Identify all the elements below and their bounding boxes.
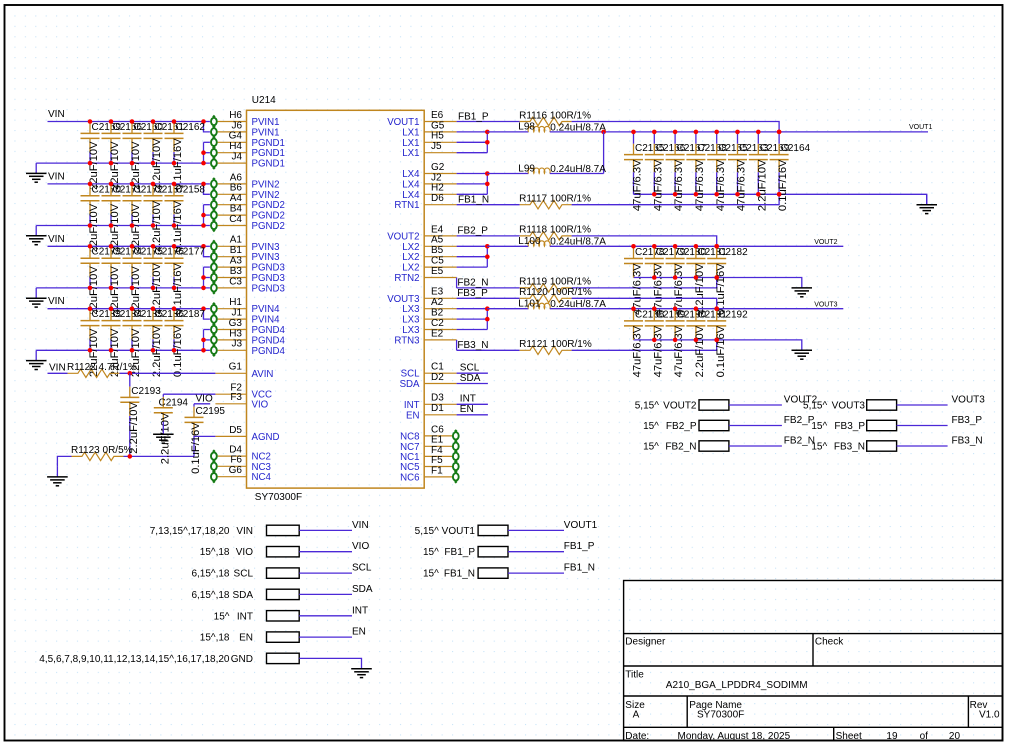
svg-text:LX2: LX2: [402, 242, 419, 253]
svg-text:FB2_P: FB2_P: [666, 421, 697, 432]
svg-text:D3: D3: [431, 393, 444, 404]
wire bank3 ground rail: [634, 339, 802, 341]
resistor R1121 100R/1%: [519, 339, 592, 354]
svg-text:SY70300F: SY70300F: [697, 710, 744, 721]
svg-text:LX3: LX3: [402, 315, 419, 326]
node junction dots: [88, 182, 93, 228]
pin J2 LX4: [402, 172, 456, 190]
svg-text:4,5,6,7,8,9,10,11,12,13,14,15^: 4,5,6,7,8,9,10,11,12,13,14,15^,16,17,18,…: [39, 654, 230, 665]
wire SCL: [299, 563, 372, 574]
svg-text:LX1: LX1: [402, 138, 419, 149]
node LX1 junction: [457, 130, 490, 153]
svg-text:B5: B5: [431, 245, 444, 256]
svg-text:FB2_N: FB2_N: [784, 436, 815, 447]
svg-text:EN: EN: [460, 404, 474, 415]
svg-text:FB1_P: FB1_P: [458, 111, 489, 122]
capacitor C2167: [666, 132, 707, 211]
svg-text:AVIN: AVIN: [252, 369, 274, 380]
wire RTN2 drop: [456, 278, 458, 288]
pin H5 LX1: [402, 131, 456, 149]
pin E6 VOUT1: [387, 110, 456, 128]
svg-text:V1.0: V1.0: [979, 710, 1000, 721]
capacitor C2184: [102, 309, 143, 377]
svg-text:C2193: C2193: [131, 386, 161, 397]
wire R1121 to bank3 gnd: [572, 338, 719, 351]
node off-page connector GND: [39, 653, 299, 665]
node junction dots: [88, 119, 93, 165]
node junction dots: [151, 182, 156, 228]
pin A3 PGND3: [211, 256, 285, 274]
svg-text:20: 20: [949, 731, 961, 742]
wire R1116 to VOUT1 rail: [572, 122, 780, 132]
svg-text:LX2: LX2: [402, 263, 419, 274]
pin E3 VOUT3: [387, 287, 456, 305]
resistor R1122: [48, 362, 137, 377]
svg-text:R1118 100R/1%: R1118 100R/1%: [519, 225, 591, 236]
node VIN group 1: [48, 109, 65, 120]
node off-page connector VOUT3: [803, 400, 897, 412]
svg-text:VIN: VIN: [352, 520, 369, 531]
node junction dots: [735, 130, 740, 197]
node LX3 junction: [457, 306, 490, 329]
svg-text:E3: E3: [431, 287, 444, 298]
node VIN group 3: [48, 234, 65, 245]
pin H1 PVIN4: [211, 297, 280, 315]
wire EN: [457, 404, 488, 415]
node junction dots: [652, 130, 657, 197]
inductor L101: [487, 308, 528, 310]
pin E4 VOUT2: [387, 224, 456, 242]
pin E5 RTN2: [394, 266, 456, 284]
wire VCC: [163, 393, 215, 395]
pin F6 NC3: [211, 455, 271, 473]
pin B4 PGND2: [211, 204, 285, 222]
svg-text:VIN: VIN: [48, 296, 65, 307]
node off-page connector SDA: [191, 589, 299, 601]
node VOUT3 label: [814, 302, 837, 309]
svg-text:C3: C3: [229, 276, 242, 287]
wire FB1_P: [457, 111, 520, 122]
svg-text:PGND4: PGND4: [252, 346, 286, 357]
pin F3 VIO: [215, 392, 268, 410]
pin H6 PVIN1: [211, 110, 280, 128]
pin H2 LX4: [402, 183, 456, 201]
svg-text:F5: F5: [431, 455, 443, 466]
capacitor C2171: [102, 184, 143, 252]
capacitor C2165: [624, 132, 665, 211]
capacitor C2157: [144, 184, 185, 252]
ground: [792, 340, 813, 359]
capacitor C2159: [81, 122, 122, 190]
svg-text:L100: L100: [518, 236, 541, 247]
svg-text:B1: B1: [230, 245, 243, 256]
svg-text:R1121 100R/1%: R1121 100R/1%: [519, 339, 592, 350]
pin G5 LX1: [402, 120, 456, 138]
svg-text:A3: A3: [230, 256, 243, 267]
node junction dots: [673, 130, 678, 197]
svg-text:AGND: AGND: [252, 432, 280, 443]
capacitor C2163: [728, 132, 769, 211]
IC U214 body: [247, 110, 425, 488]
svg-text:SDA: SDA: [400, 379, 420, 390]
svg-text:FB2_N: FB2_N: [665, 442, 696, 453]
resistor R1117 100R/1%: [519, 194, 591, 209]
wire L99 out: [550, 173, 604, 175]
wire FB3_P: [897, 415, 983, 426]
svg-text:L98: L98: [518, 122, 535, 133]
svg-text:J5: J5: [431, 141, 442, 152]
ground: [26, 163, 47, 182]
svg-text:RTN3: RTN3: [394, 335, 419, 346]
svg-text:L99: L99: [518, 163, 535, 174]
pin C2 LX3: [402, 318, 456, 336]
wire VIN top rail: [48, 244, 210, 257]
ground: [47, 467, 68, 486]
wire FB3_N: [897, 436, 983, 447]
svg-text:FB2_P: FB2_P: [457, 226, 488, 237]
pin D4 NC2: [211, 445, 271, 463]
svg-text:PVIN4: PVIN4: [252, 315, 281, 326]
svg-text:E2: E2: [431, 328, 444, 339]
svg-text:EN: EN: [406, 410, 419, 421]
capacitor C2195: [185, 404, 226, 474]
wire PGND bottom rail: [36, 267, 210, 290]
svg-text:C2182: C2182: [718, 247, 748, 258]
svg-text:E4: E4: [431, 224, 444, 235]
svg-text:A: A: [633, 710, 640, 721]
node junction dots: [109, 244, 114, 290]
pin J1 PVIN4: [211, 308, 280, 326]
pin G4 PGND1: [211, 131, 285, 149]
svg-text:PVIN2: PVIN2: [252, 179, 280, 190]
svg-text:FB3_N: FB3_N: [952, 436, 983, 447]
capacitor C2189: [645, 309, 686, 377]
svg-text:A4: A4: [230, 193, 243, 204]
ground: [26, 226, 47, 245]
node junction dots: [88, 306, 93, 352]
pin F1 NC6: [400, 465, 459, 483]
svg-text:F1: F1: [431, 465, 443, 476]
node VIN group 2: [48, 171, 65, 182]
svg-text:C2192: C2192: [718, 309, 748, 320]
svg-text:LX1: LX1: [402, 127, 419, 138]
capacitor C2162: [165, 122, 206, 190]
svg-text:C2177: C2177: [176, 247, 206, 258]
wire AGND: [194, 435, 215, 437]
svg-text:FB1_P: FB1_P: [444, 547, 475, 558]
pin J5 LX1: [402, 141, 456, 159]
wire VIO: [299, 541, 369, 552]
svg-text:E5: E5: [431, 266, 444, 277]
svg-text:EN: EN: [239, 633, 253, 644]
svg-text:VOUT3: VOUT3: [952, 395, 986, 406]
svg-text:FB3_P: FB3_P: [952, 415, 983, 426]
resistor R1120 100R/1%: [519, 287, 592, 302]
wire VIN top rail: [48, 182, 210, 195]
wire SDA: [299, 584, 373, 595]
node junction dots: [151, 119, 156, 165]
ground: [26, 350, 47, 369]
svg-text:J1: J1: [231, 308, 242, 319]
node off-page connector FB2_N: [643, 441, 729, 453]
node VIO: [196, 393, 213, 404]
svg-text:LX3: LX3: [402, 304, 419, 315]
svg-text:SDA: SDA: [232, 590, 253, 601]
svg-text:Title: Title: [625, 669, 644, 680]
capacitor C2188: [624, 309, 665, 377]
wire PGND bottom rail: [36, 330, 210, 353]
node junction dots: [694, 244, 699, 280]
wire LX tie: [603, 132, 605, 174]
svg-text:PGND1: PGND1: [252, 138, 285, 149]
svg-text:J3: J3: [231, 339, 242, 350]
pin B5 LX2: [402, 245, 456, 263]
wire FB3_N: [457, 340, 520, 351]
svg-text:PVIN2: PVIN2: [252, 190, 280, 201]
capacitor C2160: [123, 122, 164, 190]
capacitor C2181: [686, 247, 727, 315]
pin H3 PGND4: [211, 328, 285, 346]
wire FB1_P: [508, 541, 595, 552]
pin G1 AVIN: [215, 362, 273, 380]
svg-text:G5: G5: [431, 120, 445, 131]
svg-text:B6: B6: [230, 183, 243, 194]
svg-text:VOUT3: VOUT3: [387, 294, 419, 305]
svg-text:FB3_P: FB3_P: [834, 421, 865, 432]
svg-text:47uF/6.3V: 47uF/6.3V: [673, 159, 685, 211]
svg-text:VOUT2: VOUT2: [814, 239, 837, 246]
wire FB2_P: [457, 226, 520, 237]
svg-text:15^: 15^: [811, 442, 827, 453]
resistor R1116 100R/1%: [519, 110, 591, 125]
node junction dots: [151, 306, 156, 352]
svg-text:NC6: NC6: [400, 472, 419, 483]
svg-text:A210_BGA_LPDDR4_SODIMM: A210_BGA_LPDDR4_SODIMM: [666, 680, 808, 691]
svg-text:PGND3: PGND3: [252, 273, 285, 284]
svg-text:PVIN3: PVIN3: [252, 242, 280, 253]
capacitor C2193: [120, 373, 161, 456]
svg-text:PGND3: PGND3: [252, 283, 285, 294]
wire INT: [299, 605, 368, 616]
pin J6 PVIN1: [211, 120, 280, 138]
wire VOUT2: [729, 395, 818, 406]
svg-text:A5: A5: [431, 235, 444, 246]
svg-text:47uF/6.3V: 47uF/6.3V: [673, 325, 685, 377]
svg-text:15^: 15^: [643, 421, 659, 432]
node off-page connector FB1_P: [423, 547, 508, 559]
svg-text:LX4: LX4: [402, 179, 420, 190]
svg-text:PGND4: PGND4: [252, 325, 286, 336]
svg-text:C2158: C2158: [176, 184, 206, 195]
capacitor C2192: [707, 309, 748, 377]
capacitor C2191: [686, 309, 727, 377]
svg-text:FB3_P: FB3_P: [457, 288, 488, 299]
wire FB2_N: [729, 436, 815, 447]
node VIN (AVIN): [49, 362, 66, 373]
svg-text:0.1uF/16V: 0.1uF/16V: [190, 422, 202, 474]
node off-page connector VIN: [150, 525, 299, 537]
svg-text:2.2uF/10V: 2.2uF/10V: [756, 159, 768, 211]
svg-text:19: 19: [886, 731, 898, 742]
pin B2 LX3: [402, 308, 456, 326]
svg-text:47uF/6.3V: 47uF/6.3V: [632, 159, 644, 211]
capacitor C2176: [144, 247, 185, 315]
pin B6 PVIN2: [211, 183, 280, 201]
svg-text:G3: G3: [229, 318, 243, 329]
svg-text:A6: A6: [230, 172, 243, 183]
svg-text:0.1uF/16V: 0.1uF/16V: [777, 159, 789, 211]
capacitor C2177: [165, 247, 206, 315]
pin A5 LX2: [402, 235, 456, 253]
capacitor C2179: [645, 247, 686, 315]
svg-text:G6: G6: [229, 465, 243, 476]
pin F4 NC1: [400, 445, 459, 463]
svg-text:D5: D5: [229, 425, 242, 436]
svg-text:Monday, August 18, 2025: Monday, August 18, 2025: [678, 731, 791, 742]
svg-text:C2195: C2195: [196, 406, 226, 417]
svg-text:5,15^: 5,15^: [803, 401, 827, 412]
ground: [792, 278, 813, 297]
svg-text:U214: U214: [252, 95, 276, 106]
resistor R1118 100R/1%: [519, 225, 591, 240]
inductor L99: [487, 173, 528, 175]
pin F2 VCC: [215, 383, 272, 401]
node junction dots: [130, 306, 135, 352]
capacitor C2185: [123, 309, 164, 377]
svg-text:C2162: C2162: [176, 122, 206, 133]
svg-text:PVIN1: PVIN1: [252, 117, 280, 128]
svg-text:Sheet: Sheet: [836, 731, 862, 742]
svg-text:PVIN4: PVIN4: [252, 304, 281, 315]
svg-text:R1117 100R/1%: R1117 100R/1%: [519, 194, 591, 205]
wire INT: [457, 394, 488, 405]
svg-text:NC4: NC4: [252, 472, 272, 483]
svg-text:FB3_N: FB3_N: [834, 442, 865, 453]
svg-text:D6: D6: [431, 193, 444, 204]
svg-text:VOUT1: VOUT1: [387, 117, 419, 128]
wire R1120 to VOUT3 rail: [572, 298, 719, 311]
svg-text:PGND3: PGND3: [252, 263, 285, 274]
svg-text:A2: A2: [431, 297, 444, 308]
pin D5 AGND: [215, 425, 279, 443]
capacitor C2186: [144, 309, 185, 377]
wire PGND bottom rail: [36, 142, 210, 165]
svg-text:SY70300F: SY70300F: [255, 492, 302, 503]
pin D2 SDA: [400, 372, 457, 390]
svg-text:47uF/6.3V: 47uF/6.3V: [694, 159, 706, 211]
wire FB2_N: [457, 278, 520, 289]
svg-text:FB2_N: FB2_N: [457, 278, 488, 289]
node junction dots: [652, 306, 657, 342]
pin D3 INT: [404, 393, 457, 411]
svg-text:H2: H2: [431, 183, 444, 194]
node off-page connector VOUT1: [415, 525, 508, 537]
pin G3 PGND4: [211, 318, 285, 336]
pin C1 SCL: [401, 362, 457, 380]
node junction dots: [130, 244, 135, 290]
node junction dots: [631, 306, 636, 311]
capacitor C2158: [165, 184, 206, 252]
ground: [153, 424, 174, 443]
capacitor C2173: [81, 247, 122, 315]
svg-text:D2: D2: [431, 372, 444, 383]
svg-text:VOUT3: VOUT3: [832, 401, 866, 412]
pin A4 PGND2: [211, 193, 285, 211]
capacitor C2172: [123, 184, 164, 252]
svg-text:H5: H5: [431, 131, 444, 142]
node junction dots: [172, 244, 177, 290]
node off-page connector SCL: [191, 568, 299, 580]
svg-text:H4: H4: [229, 141, 242, 152]
svg-text:C2164: C2164: [781, 143, 811, 154]
svg-text:PVIN1: PVIN1: [252, 127, 280, 138]
wire R1117 to bank1 gnd: [572, 192, 782, 205]
resistor R1123: [57, 445, 132, 466]
svg-text:VIN: VIN: [49, 362, 66, 373]
svg-text:EN: EN: [352, 627, 366, 638]
svg-text:15^,18: 15^,18: [200, 633, 230, 644]
svg-text:INT: INT: [352, 605, 368, 616]
svg-text:R1116 100R/1%: R1116 100R/1%: [519, 110, 591, 121]
capacitor C2168: [686, 132, 727, 211]
wire VIO: [194, 403, 210, 405]
svg-text:VIN: VIN: [48, 171, 65, 182]
node off-page connector FB1_N: [423, 568, 508, 580]
svg-text:H1: H1: [229, 297, 242, 308]
svg-text:VOUT1: VOUT1: [442, 526, 476, 537]
svg-text:47uF/6.3V: 47uF/6.3V: [632, 325, 644, 377]
svg-text:FB2_P: FB2_P: [784, 415, 815, 426]
svg-text:FB3_N: FB3_N: [457, 340, 488, 351]
svg-text:H3: H3: [229, 328, 242, 339]
node junction dots: [714, 306, 719, 342]
svg-text:VOUT2: VOUT2: [387, 231, 419, 242]
node junction dots: [172, 119, 177, 165]
svg-text:G4: G4: [229, 131, 243, 142]
wire PGND bottom rail: [36, 205, 210, 228]
pin B3 PGND3: [211, 266, 285, 284]
svg-text:GND: GND: [231, 654, 253, 665]
svg-text:VOUT3: VOUT3: [814, 302, 837, 309]
node VIN group 4: [48, 296, 65, 307]
svg-text:RTN2: RTN2: [394, 273, 419, 284]
pin F5 NC5: [400, 455, 459, 473]
wire VIN: [299, 520, 368, 531]
svg-text:R1122 4.7R/1%: R1122 4.7R/1%: [67, 362, 137, 373]
svg-text:RTN1: RTN1: [394, 200, 419, 211]
svg-text:47uF/6.3V: 47uF/6.3V: [715, 159, 727, 211]
wire bottom node: [124, 454, 195, 459]
wire bank1 ground rail: [634, 194, 927, 204]
node off-page connector VIO: [200, 547, 299, 559]
pin C3 PGND3: [211, 276, 285, 294]
capacitor C2170: [81, 184, 122, 252]
svg-text:VIN: VIN: [48, 234, 65, 245]
pin J4 PGND1: [211, 152, 285, 170]
capacitor C2174: [102, 247, 143, 315]
svg-text:B4: B4: [230, 204, 243, 215]
svg-text:INT: INT: [404, 400, 420, 411]
node off-page connector EN: [200, 632, 299, 644]
svg-text:VOUT1: VOUT1: [909, 124, 932, 131]
svg-text:SCL: SCL: [234, 569, 254, 580]
svg-text:SDA: SDA: [460, 373, 481, 384]
node off-page connector FB2_P: [643, 420, 729, 432]
pin A2 LX3: [402, 297, 456, 315]
node junction dots: [88, 244, 93, 290]
capacitor C2175: [123, 247, 164, 315]
svg-text:F6: F6: [230, 455, 242, 466]
